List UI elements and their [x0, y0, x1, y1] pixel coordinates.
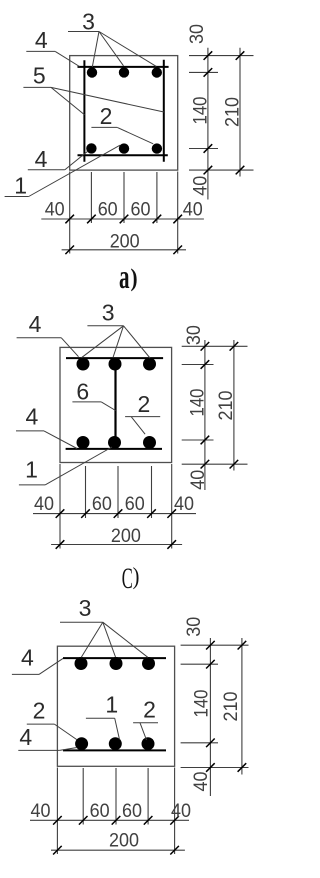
leader 4 c mid underline	[16, 430, 44, 432]
leader 1 v underline	[86, 717, 115, 719]
tick c h1 x=118	[114, 509, 123, 518]
svg-text:140: 140	[187, 389, 208, 417]
dimension line v total 200	[51, 849, 185, 851]
tick v h1 x=116	[112, 816, 121, 825]
tick c v1 y=464.2	[201, 460, 210, 469]
leader 4 v top underline	[12, 673, 39, 675]
svg-text:60: 60	[92, 494, 112, 515]
tick c v2 bottom	[230, 460, 239, 469]
svg-text:40: 40	[171, 801, 191, 822]
svg-text:C: C	[122, 562, 133, 595]
svg-text:30: 30	[184, 325, 205, 345]
extension line v left edge	[56, 768, 58, 855]
tick a h1 x=124	[120, 215, 129, 224]
svg-text:60: 60	[98, 200, 118, 221]
svg-text:40: 40	[45, 200, 65, 221]
tick v h1 x=174.6	[170, 816, 179, 825]
tick c h1 x=171.7	[167, 509, 176, 518]
extension line a bar1	[90, 172, 92, 223]
svg-text:1: 1	[14, 173, 27, 199]
svg-text:40: 40	[34, 494, 54, 515]
leader 3 c to left bar	[82, 326, 124, 358]
extension line v bottom bars right	[181, 742, 218, 744]
svg-text:60: 60	[125, 494, 145, 515]
tick a v2 bottom	[236, 166, 245, 175]
leader 3 v to left bar	[81, 622, 103, 657]
caption c)	[122, 562, 133, 595]
caption a)	[119, 259, 130, 296]
stirrup a top side	[78, 66, 169, 68]
dimension line a total 200	[62, 249, 186, 251]
tick c v1 y=346.3	[201, 342, 210, 351]
svg-text:4: 4	[29, 311, 42, 337]
svg-text:4: 4	[35, 146, 48, 172]
tick a h2 left	[65, 246, 74, 255]
leader 3 v to right bar	[103, 622, 148, 657]
tick c v2 top	[230, 342, 239, 351]
stirrup v bottom side	[63, 749, 166, 751]
svg-text:6: 6	[76, 379, 89, 405]
tick v h1 x=148.1	[144, 816, 153, 825]
svg-text:2: 2	[143, 697, 156, 723]
leader 5 a underline	[23, 86, 51, 88]
svg-text:1: 1	[25, 457, 38, 483]
svg-text:4: 4	[26, 404, 39, 430]
extension line c bar2	[117, 466, 119, 518]
dim text a 210 rotated	[222, 97, 243, 127]
svg-text:40: 40	[191, 772, 212, 792]
bottom rebar row a	[86, 143, 96, 153]
leader 4 a bottom underline	[28, 169, 65, 171]
svg-text:60: 60	[90, 801, 110, 822]
svg-text:140: 140	[190, 97, 211, 125]
stirrup c bottom side	[66, 448, 162, 450]
dim text c 140 rotated	[187, 389, 208, 417]
svg-text:40: 40	[31, 801, 51, 822]
extension line c bottom edge right	[182, 463, 248, 465]
leader 3 a to left bar	[92, 32, 99, 68]
dimension line v 30-140-40	[209, 638, 211, 796]
extension line v bar1	[82, 768, 84, 825]
leader 3 a to right bar	[99, 32, 156, 67]
svg-text:210: 210	[221, 692, 242, 722]
svg-text:3: 3	[82, 9, 95, 35]
svg-text:210: 210	[222, 97, 243, 127]
tick c v1 y=440	[201, 436, 210, 445]
dim text v 140 rotated	[192, 690, 213, 718]
tick v h2 left	[53, 846, 62, 855]
tick c v1 y=364.5	[201, 360, 210, 369]
svg-text:40: 40	[188, 470, 209, 490]
leader 2 v left diagonal	[54, 724, 76, 740]
leader 4 v top diagonal	[39, 658, 63, 674]
tick c h2 right	[167, 540, 176, 549]
leader 3 c underline	[87, 325, 123, 327]
leader 4 c top diagonal	[61, 338, 78, 357]
bottom rebar row c	[77, 436, 90, 449]
extension line c left edge	[59, 464, 61, 549]
leader 2 a underline	[91, 126, 117, 128]
leader 4 c mid diagonal	[44, 431, 77, 449]
leader 1 a underline	[5, 196, 29, 198]
extension line v bar2	[115, 768, 117, 825]
leader 6 c diagonal	[101, 402, 115, 411]
leader 5 a to right leg	[51, 87, 164, 112]
tick a h2 right	[173, 246, 182, 255]
tie link c (vertical)	[114, 365, 116, 441]
extension line a bar2	[123, 172, 125, 223]
leader 2 c diagonal	[131, 417, 145, 434]
tick v h2 right	[170, 846, 179, 855]
svg-text:2: 2	[100, 103, 113, 129]
leader 1 v diagonal	[115, 718, 120, 739]
tick v v2 top	[238, 641, 247, 650]
svg-text:60: 60	[131, 200, 151, 221]
leader 1 a diagonal	[29, 145, 120, 196]
svg-text:1: 1	[105, 692, 118, 718]
tick a v1 y=55.6	[204, 51, 213, 60]
svg-text:4: 4	[21, 645, 34, 671]
extension line c bar1	[85, 466, 87, 518]
leader 4 a top diagonal	[55, 51, 79, 66]
svg-text:30: 30	[187, 24, 208, 44]
tick v v1 y=742.8	[206, 739, 215, 748]
tick v v2 bottom	[238, 763, 247, 772]
extension line a bar3	[156, 172, 158, 223]
dimension line c 40-60-60-40	[33, 513, 196, 515]
dim text v 30 rotated	[184, 617, 205, 637]
svg-text:4: 4	[35, 27, 48, 53]
svg-text:200: 200	[109, 831, 139, 852]
extension line a bottom edge right	[189, 169, 254, 171]
dim text v 40 rotated	[191, 772, 212, 792]
tick v v1 y=645.2	[206, 641, 215, 650]
stirrup a left leg	[83, 60, 85, 161]
concrete section outline v	[57, 646, 174, 766]
tick v h1 x=83.2	[79, 816, 88, 825]
tick a h1 x=91.4	[87, 215, 96, 224]
extension line v bottom edge right	[181, 767, 249, 769]
dim text c 40 rotated	[188, 470, 209, 490]
extension line a right edge	[177, 172, 179, 254]
extension line v right edge	[174, 768, 176, 855]
leader 5 a to left leg	[51, 87, 85, 114]
tick v h1 x=57.4	[53, 816, 62, 825]
tick c h1 x=60	[56, 509, 65, 518]
extension line a top edge right	[189, 55, 254, 57]
extension line a left edge	[69, 172, 71, 254]
leader 4 v bottom diagonal	[60, 748, 77, 751]
stirrup c top side	[66, 357, 163, 359]
concrete section outline c	[60, 347, 172, 462]
top rebar row c	[77, 358, 90, 371]
tick a h1 x=69.7	[65, 215, 74, 224]
dimension line a 30-140-40	[207, 48, 209, 200]
top rebar row a	[87, 67, 97, 77]
svg-text:200: 200	[110, 231, 140, 252]
leader 6 c underline	[72, 401, 101, 403]
extension line v bar3	[147, 768, 149, 825]
extension line c bar3	[151, 466, 153, 518]
svg-text:): )	[130, 265, 137, 293]
tick v v1 y=767.5	[206, 763, 215, 772]
leader 4 a bottom diagonal	[65, 152, 87, 170]
tick a v1 y=148.5	[204, 144, 213, 153]
dim text c 210 rotated	[216, 391, 237, 421]
extension line v top edge right	[181, 644, 249, 646]
dimension line a 40-60-60-40	[41, 218, 204, 220]
tick a v2 top	[236, 51, 245, 60]
tick c h1 x=85.5	[81, 509, 90, 518]
svg-text:210: 210	[216, 391, 237, 421]
stirrup a bottom side	[78, 154, 168, 156]
tick c h1 x=151.5	[147, 509, 156, 518]
stirrup v top side	[63, 657, 166, 659]
extension line c right edge	[171, 464, 173, 549]
dim text a 30 rotated	[187, 24, 208, 44]
leader 1 c underline	[19, 484, 45, 486]
dimension line v total 210	[241, 638, 243, 775]
dimension line c 30-140-40	[204, 340, 206, 490]
svg-text:5: 5	[33, 63, 46, 89]
dim text v 210 rotated	[221, 692, 242, 722]
leader 3 a to middle bar	[99, 32, 124, 66]
concrete section outline a	[70, 56, 178, 171]
svg-text:60: 60	[122, 801, 142, 822]
svg-text:40: 40	[190, 176, 211, 196]
svg-text:a: a	[119, 259, 130, 296]
extension line c bottom bars right	[182, 439, 214, 441]
tick a v1 y=72.4	[204, 68, 213, 77]
leader 3 a underline	[68, 31, 99, 33]
svg-text:4: 4	[19, 724, 32, 750]
leader 3 c to right bar	[124, 326, 151, 358]
extension line a top bars right	[189, 71, 218, 73]
leader 3 v to middle bar	[103, 622, 116, 657]
leader 2 a diagonal	[117, 127, 153, 143]
dimension line v 40-60-60-40	[30, 819, 189, 821]
dimension line c total 200	[51, 544, 182, 546]
extension line a bottom bars right	[189, 148, 218, 150]
svg-text:40: 40	[174, 494, 194, 515]
svg-text:40: 40	[183, 200, 203, 221]
tick a v1 y=170.1	[204, 166, 213, 175]
leader 3 v underline	[60, 621, 103, 623]
dim text c 30 rotated	[184, 325, 205, 345]
leader 2 v left underline	[27, 723, 55, 725]
extension line c top bars right	[182, 364, 214, 366]
svg-text:200: 200	[111, 526, 141, 547]
dimension line c total 210	[233, 340, 235, 471]
leader 2 v right diagonal	[140, 723, 147, 740]
dim text a 40 rotated	[190, 176, 211, 196]
dimension line a total 210	[239, 48, 241, 177]
svg-text:): )	[133, 563, 140, 590]
leader 4 v bottom underline	[18, 749, 59, 751]
svg-text:3: 3	[102, 300, 115, 326]
top rebar row v	[75, 657, 88, 670]
stirrup a right leg	[163, 60, 165, 162]
leader 2 c underline	[125, 416, 160, 418]
svg-text:30: 30	[184, 617, 205, 637]
tick v v1 y=664.2	[206, 660, 215, 669]
bottom rebar row v	[75, 737, 88, 750]
tick a h1 x=177.7	[173, 215, 182, 224]
svg-text:2: 2	[33, 698, 46, 724]
leader 3 c to middle bar	[113, 326, 124, 358]
svg-text:3: 3	[79, 595, 92, 621]
tick a h1 x=156.9	[153, 215, 162, 224]
leader 4 c top underline	[17, 337, 62, 339]
leader 2 v right underline	[133, 722, 158, 724]
leader 4 a top underline	[26, 50, 55, 52]
svg-text:2: 2	[138, 391, 151, 417]
svg-text:140: 140	[192, 690, 213, 718]
tick c h2 left	[56, 540, 65, 549]
extension line v top bars right	[181, 663, 218, 665]
dim text a 140 rotated	[190, 97, 211, 125]
leader 1 c diagonal	[45, 447, 112, 485]
extension line c top edge right	[182, 345, 248, 347]
